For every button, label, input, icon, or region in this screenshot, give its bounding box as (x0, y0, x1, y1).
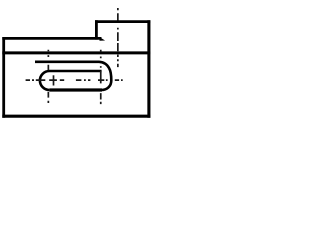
centerline: horizontal axis of slot (dash-dot) (26, 79, 123, 81)
slot: bottom edge (49, 88, 102, 91)
outline: main body top edge (2, 37, 101, 40)
slot: top edge and left end arc (40, 71, 102, 90)
outline: step left edge (95, 20, 98, 39)
interior edge: full-width horizontal line (2, 51, 150, 54)
centerline: vertical axis through step (dash-dot) (117, 8, 119, 67)
outline: right edge (147, 20, 150, 118)
outline: fillet runout wedge at end of top edge (100, 37, 106, 41)
outline: step top edge (95, 20, 150, 23)
centerline: vertical axis of slot right arc (dash-dot) (100, 50, 102, 104)
center cross tick at slot left arc center (offset) (53, 75, 55, 85)
boss edge line with runout curl into slot right arc (35, 62, 111, 90)
outline: left edge (2, 37, 5, 118)
centerline: vertical axis of slot left arc (dash-dot) (47, 50, 49, 103)
outline: bottom edge (2, 115, 150, 118)
